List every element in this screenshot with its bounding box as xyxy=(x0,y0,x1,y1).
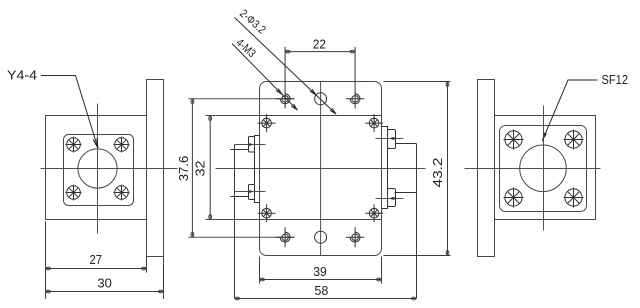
dim 43.2: dimension line xyxy=(447,82,449,256)
svg-text:30: 30 xyxy=(97,276,112,291)
center view: M3 hole top-right xyxy=(346,47,365,109)
center view: left upper tab pin tick xyxy=(249,143,252,145)
center view: M3 hole bottom-left xyxy=(276,227,295,247)
svg-text:39: 39 xyxy=(313,264,327,279)
left view: vertical centerline xyxy=(97,104,99,234)
right view: screw hole top-right xyxy=(564,130,584,150)
center view: corner screw hole bottom-left xyxy=(258,204,276,222)
right view: screw hole bottom-right xyxy=(564,188,584,208)
center view: vertical centerline xyxy=(320,82,322,256)
dim 43.2: bottom extension line xyxy=(384,255,451,257)
center view: left lower tab xyxy=(249,185,255,200)
right view: horizontal centerline xyxy=(465,168,601,170)
dim 27: extension lines xyxy=(46,222,147,300)
right view: screw hole top-left xyxy=(504,130,524,150)
center view: left upper tab centerline xyxy=(235,144,266,146)
center view: corner screw hole top-right xyxy=(365,114,383,132)
center view: bottom hole-row centerline xyxy=(188,236,294,238)
left view: screw hole top-right xyxy=(114,137,130,153)
left view: horizontal centerline xyxy=(41,168,178,170)
dim 27: arrow right xyxy=(142,267,146,270)
center view: left upper tab xyxy=(249,137,255,153)
right view: screw hole bottom-left xyxy=(504,188,524,208)
dim 58: dimension line xyxy=(235,298,417,300)
center view: right lower tab xyxy=(388,189,396,207)
left view: flange plate outline xyxy=(46,116,147,220)
center view: top pin hole circle xyxy=(315,93,327,105)
right view: flange bore circle xyxy=(520,145,567,192)
dim 43.2: top extension line xyxy=(384,81,451,83)
label SF12 leader xyxy=(542,80,597,141)
center view: left lower tab pin tick xyxy=(249,190,252,192)
dim 32: arrow bottom xyxy=(209,215,212,219)
svg-text:32: 32 xyxy=(192,161,207,177)
right view: body side-profile bar xyxy=(478,80,495,257)
svg-text:22: 22 xyxy=(313,37,326,52)
svg-text:37.6: 37.6 xyxy=(176,156,191,182)
svg-text:58: 58 xyxy=(314,283,328,298)
dim 43.2: arrow top xyxy=(446,82,449,86)
center view: right lower tab pin tick xyxy=(391,197,394,199)
right view: vertical centerline xyxy=(543,106,545,231)
svg-text:Y4-4: Y4-4 xyxy=(7,68,37,83)
svg-text:27: 27 xyxy=(90,252,103,267)
dim 37.6: dimension line xyxy=(191,99,193,237)
center view: M3 hole bottom-right xyxy=(346,227,365,247)
right view: flange boss rounded square xyxy=(500,126,587,212)
center view: right upper tab xyxy=(388,130,396,149)
center view: body bottom edge with 32-dim extension xyxy=(206,219,382,221)
right view: flange plate outline xyxy=(495,116,596,220)
center view: right lower tab centerline xyxy=(376,198,404,200)
svg-text:SF12: SF12 xyxy=(602,72,629,87)
left view: body side-profile bar xyxy=(147,80,164,257)
left view: screw hole bottom-right xyxy=(114,185,130,201)
svg-text:2-Φ3.2: 2-Φ3.2 xyxy=(237,8,268,37)
dim 39: arrow left xyxy=(260,278,264,281)
left view: screw hole top-left xyxy=(66,137,82,153)
dim 22: arrow right xyxy=(350,50,354,53)
dim 32: arrow top xyxy=(209,116,212,120)
center view: top hole-row centerline xyxy=(188,98,294,100)
dim 39: extension lines xyxy=(260,257,382,284)
center view: bottom pin hole circle xyxy=(315,231,327,243)
center view: left lower tab pin line xyxy=(231,196,249,198)
dim 30: arrow right xyxy=(159,290,163,293)
dim 39: arrow right xyxy=(377,278,381,281)
center view: body top edge with 32-dim extension xyxy=(206,115,382,117)
center view: right upper tab centerline xyxy=(376,138,404,140)
dim 22: arrow left xyxy=(286,50,290,53)
leader 2-phi3.2 line xyxy=(235,18,337,115)
dim 22: dimension line xyxy=(285,51,355,53)
center view: mounting plate rounded rect xyxy=(260,82,382,256)
label Y4-4 leader xyxy=(41,76,98,149)
dim 58: right extension line xyxy=(416,144,418,299)
left view: flange bore circle xyxy=(78,149,117,188)
center view: left lower tab centerline xyxy=(235,191,266,193)
svg-text:43.2: 43.2 xyxy=(430,158,445,188)
center view: horizontal centerline xyxy=(216,168,426,170)
center view: right upper tab pin tick xyxy=(391,137,394,139)
center view: corner screw hole top-left xyxy=(258,114,276,132)
center view: right connector strip xyxy=(382,127,388,209)
dim 58: left extension line xyxy=(234,145,236,299)
dim 30: arrow left xyxy=(46,290,50,293)
dim 39: dimension line xyxy=(260,279,382,281)
leader 4-M3 arrowheads xyxy=(276,89,297,111)
left view: screw hole bottom-left xyxy=(66,185,82,201)
dim 37.6: arrow top xyxy=(191,99,194,103)
dim 30: dimension line xyxy=(46,291,164,293)
dim 30: extension line xyxy=(163,257,165,300)
center view: right connector housing outline xyxy=(395,144,417,193)
center view: left connector strip xyxy=(255,136,260,203)
leader 4-M3 line xyxy=(232,44,297,111)
dim 27: dimension line xyxy=(46,268,147,270)
dim 43.2: arrow bottom xyxy=(446,250,449,254)
dim 58: arrow left xyxy=(235,297,239,300)
dim 27: arrow left xyxy=(46,267,50,270)
dim 32: dimension line xyxy=(209,116,211,220)
dim 37.6: arrow bottom xyxy=(191,232,194,236)
dim 58: arrow right xyxy=(412,297,416,300)
left view: flange boss rounded square xyxy=(64,135,134,206)
center view: left upper tab pin line xyxy=(231,149,249,151)
center view: M3 hole top-left xyxy=(276,47,295,109)
center view: corner screw hole bottom-right xyxy=(365,204,383,222)
leader 2-phi3.2 arrowheads xyxy=(310,89,336,114)
